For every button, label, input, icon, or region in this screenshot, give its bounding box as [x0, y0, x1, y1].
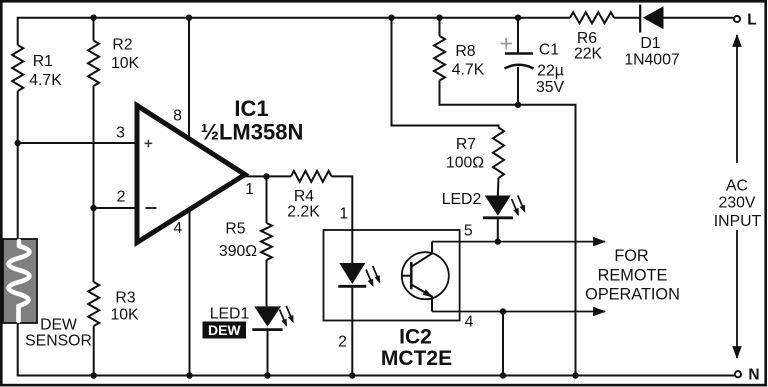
capacitor C1 — [517, 18, 519, 54]
wire IC2 pin2 to rail — [351, 286, 353, 375]
AC input up arrow — [736, 35, 738, 163]
svg-text:10K: 10K — [111, 55, 140, 72]
LED1 — [254, 306, 281, 326]
svg-text:DEW: DEW — [40, 317, 77, 334]
node bottom rail pin4 — [186, 372, 192, 378]
IC2 internal LED — [339, 263, 365, 284]
svg-text:2: 2 — [338, 334, 347, 351]
svg-text:SENSOR: SENSOR — [25, 333, 92, 350]
svg-text:OPERATION: OPERATION — [585, 286, 680, 304]
svg-text:100Ω: 100Ω — [446, 155, 484, 172]
resistor R3 — [88, 282, 99, 326]
resistor R1 — [12, 45, 23, 91]
wire pin 4 — [189, 207, 191, 376]
terminal N — [735, 371, 741, 377]
node top rail R2 — [90, 15, 96, 21]
wire op-amp output — [244, 175, 291, 177]
wire R8 column — [439, 18, 441, 36]
svg-text:390Ω: 390Ω — [219, 243, 257, 260]
node top rail C1 — [515, 15, 521, 21]
node LED2 bottom junction — [495, 238, 501, 244]
svg-text:R7: R7 — [456, 136, 476, 153]
wire R2 column top — [93, 18, 95, 41]
terminal L — [734, 16, 740, 22]
svg-text:IC1: IC1 — [234, 96, 268, 121]
svg-text:4: 4 — [465, 313, 474, 330]
wire R5 branch — [266, 176, 268, 223]
wire R7 branch from top rail — [392, 18, 499, 128]
svg-text:R6: R6 — [577, 30, 597, 47]
svg-text:5: 5 — [464, 223, 473, 240]
node C1 bottom junction — [515, 102, 521, 108]
node bottom rail R3 — [91, 372, 97, 378]
wire R4 to IC2 pin1 — [332, 176, 353, 263]
wire R2 bottom to R3 — [93, 86, 95, 282]
svg-text:MCT2E: MCT2E — [381, 347, 452, 370]
wire R3 to bottom rail — [93, 326, 95, 376]
resistor R8 — [434, 36, 445, 81]
node bottom rail IC2 pin2 — [349, 372, 355, 378]
svg-text:1N4007: 1N4007 — [624, 52, 679, 69]
wire R6 to D1 — [614, 17, 640, 19]
svg-text:LED1: LED1 — [210, 306, 250, 323]
svg-text:FOR: FOR — [614, 247, 648, 265]
resistor R2 — [88, 41, 99, 87]
C1 plus sign — [501, 38, 513, 50]
svg-text:N: N — [748, 367, 759, 384]
wire LED1 to bottom rail — [267, 330, 269, 376]
svg-text:230V: 230V — [719, 194, 756, 211]
svg-text:22K: 22K — [574, 46, 603, 63]
svg-text:R4: R4 — [294, 188, 314, 205]
svg-text:4.7K: 4.7K — [29, 72, 62, 89]
svg-text:35V: 35V — [536, 79, 565, 96]
dew sensor body — [3, 239, 37, 323]
node bottom rail LED1 — [264, 372, 270, 378]
wire R1 bottom to sensor — [17, 91, 19, 239]
node junction pin3 tap — [15, 140, 21, 146]
svg-text:1: 1 — [245, 181, 254, 198]
resistor R4 — [291, 171, 332, 182]
wire sensor bottom + bottom rail — [18, 323, 735, 376]
wire emitter to remote arrow — [432, 311, 605, 313]
node top rail R8 — [436, 15, 442, 21]
wire top rail — [18, 18, 570, 45]
wire collector to remote arrow — [432, 241, 605, 243]
diode D1 — [639, 5, 641, 33]
svg-text:IC2: IC2 — [399, 326, 432, 349]
op-amp plus input sign — [145, 140, 153, 148]
svg-text:R2: R2 — [112, 37, 132, 54]
wire R7 to LED2 — [497, 178, 500, 196]
IC2 box — [324, 230, 460, 321]
resistor R5 — [261, 223, 272, 260]
svg-text:8: 8 — [173, 108, 182, 125]
svg-text:4.7K: 4.7K — [452, 62, 485, 79]
svg-text:C1: C1 — [539, 42, 559, 59]
wire pin 2 input — [94, 207, 138, 209]
node emitter junction — [500, 308, 506, 314]
svg-text:AC: AC — [726, 177, 748, 194]
svg-text:L: L — [747, 12, 756, 29]
svg-text:D1: D1 — [640, 35, 660, 52]
node top rail R7 branch — [388, 15, 394, 21]
svg-text:½LM358N: ½LM358N — [201, 119, 304, 144]
svg-text:2: 2 — [117, 189, 126, 206]
svg-text:LED2: LED2 — [442, 191, 482, 208]
wire emitter junction to bottom rail — [502, 312, 504, 376]
resistor R6 — [570, 12, 614, 23]
svg-text:10K: 10K — [110, 307, 139, 324]
svg-text:R1: R1 — [33, 53, 53, 70]
wire pin 8 — [188, 18, 190, 141]
svg-text:R5: R5 — [225, 221, 245, 238]
wire LED2 to collector junction — [497, 218, 499, 242]
AC input down arrow — [736, 230, 738, 358]
svg-text:REMOTE: REMOTE — [598, 267, 668, 285]
svg-text:1: 1 — [339, 206, 348, 223]
svg-text:22µ: 22µ — [537, 63, 564, 80]
LED2 — [485, 196, 511, 216]
wire pin 3 input — [18, 142, 137, 144]
LED1 DEW tag — [203, 322, 247, 339]
svg-text:4: 4 — [173, 220, 182, 237]
wire R8 bottom to C1 bottom rail segment — [440, 81, 576, 376]
svg-text:INPUT: INPUT — [714, 213, 762, 230]
node top rail pin8 — [186, 15, 192, 21]
node bottom rail emitter — [500, 372, 506, 378]
node bottom rail C1 branch — [572, 372, 578, 378]
svg-text:2.2K: 2.2K — [287, 204, 320, 221]
op-amp minus input sign — [146, 207, 157, 209]
node output junction — [263, 173, 269, 179]
wire D1 to L terminal — [664, 17, 734, 19]
svg-text:DEW: DEW — [208, 322, 241, 338]
node junction pin2 tap — [90, 205, 96, 211]
svg-text:R8: R8 — [455, 43, 475, 60]
svg-text:3: 3 — [116, 125, 125, 142]
resistor R7 — [493, 128, 504, 178]
transistor Q1 phototransistor — [402, 252, 449, 299]
svg-text:R3: R3 — [115, 290, 135, 307]
op-amp IC1 — [137, 106, 245, 243]
wire R5 to LED1 — [266, 260, 268, 306]
